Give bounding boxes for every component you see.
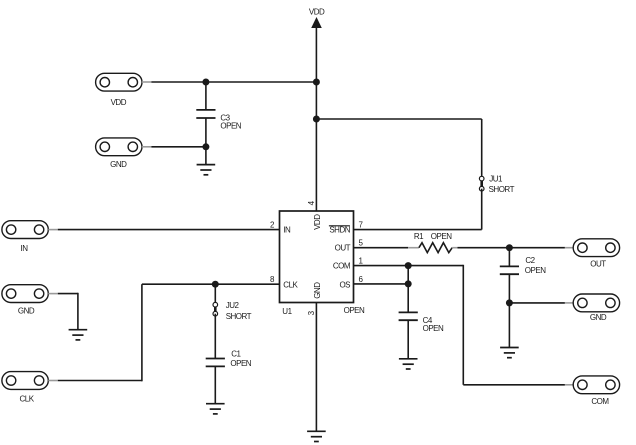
svg-text:OPEN: OPEN <box>230 359 251 368</box>
ground under left GND pad <box>69 330 88 340</box>
svg-text:COM: COM <box>591 397 609 406</box>
wire C4 bottom to ground <box>407 320 409 359</box>
svg-text:GND: GND <box>18 307 35 316</box>
svg-text:2: 2 <box>270 221 275 230</box>
pin 7 number <box>359 221 364 230</box>
svg-text:SHDN: SHDN <box>329 226 350 235</box>
wire C3 bottom to ground <box>205 118 207 165</box>
svg-text:OPEN: OPEN <box>344 306 365 315</box>
label GND (top-left pad) <box>110 160 127 169</box>
label R1 <box>414 232 424 241</box>
wire CLK pad to U1 pin 8 <box>58 284 280 381</box>
svg-text:IN: IN <box>283 226 291 235</box>
pin label SHDN (with overline) <box>329 226 351 235</box>
jumper JU1 <box>479 176 484 191</box>
junction GND pad net at C2 bottom <box>506 299 513 306</box>
wire SHDN pin 7 to JU1 <box>354 229 482 231</box>
label C4 <box>423 316 433 325</box>
wire VDD pad stub (gray) <box>142 81 152 83</box>
connector pad IN <box>2 221 48 239</box>
label JU1 value SHORT <box>489 185 515 194</box>
wire VDD rail to JU1 (horizontal) <box>316 118 481 120</box>
label GND (right pad) <box>590 313 607 322</box>
pin 5 number <box>359 239 364 248</box>
label C1 <box>231 349 241 358</box>
svg-text:IN: IN <box>21 244 29 253</box>
label U1 <box>282 307 292 316</box>
connector pad GND (left) <box>2 285 48 303</box>
wire VDD pad to VDD rail <box>151 81 316 83</box>
pin 4 number (rotated) <box>307 200 316 205</box>
svg-text:OPEN: OPEN <box>423 324 444 333</box>
junction OS net at C4 branch <box>405 280 412 287</box>
svg-text:OUT: OUT <box>590 259 606 268</box>
svg-text:1: 1 <box>359 257 364 266</box>
junction at C3 bottom / GND pad wire <box>202 143 209 150</box>
wire GND left pad to ground <box>58 293 78 330</box>
svg-text:OUT: OUT <box>335 244 351 253</box>
wire IN pad to U1 pin 2 <box>58 229 280 231</box>
svg-text:GND: GND <box>110 160 127 169</box>
wire GND right pad to C2 net <box>509 302 565 304</box>
power symbol VDD (supply arrow) <box>309 7 325 28</box>
wire COM pad stub (gray) <box>565 384 574 386</box>
svg-text:6: 6 <box>359 275 364 284</box>
label CLK (pad) <box>19 395 34 404</box>
wire JU2 to C1 <box>214 314 216 359</box>
label C4 value OPEN <box>423 324 444 333</box>
label JU2 <box>226 301 240 310</box>
svg-text:JU2: JU2 <box>226 301 240 310</box>
svg-text:SHORT: SHORT <box>226 312 252 321</box>
wire JU1 lower segment to SHDN net <box>481 189 483 230</box>
svg-text:OPEN: OPEN <box>525 266 546 275</box>
wire CLK pad stub (gray) <box>48 380 58 382</box>
svg-text:C1: C1 <box>231 349 241 358</box>
connector pad VDD <box>96 73 142 91</box>
pin label CLK <box>283 280 298 289</box>
pin label VDD (rotated) <box>313 214 322 230</box>
wire C3 top branch <box>205 82 207 110</box>
svg-text:4: 4 <box>307 200 316 205</box>
junction COM net at C4 branch <box>405 262 412 269</box>
svg-text:7: 7 <box>359 221 364 230</box>
wire JU1 upper segment <box>481 119 483 179</box>
wire GND left pad stub (gray) <box>48 293 58 295</box>
wire U1 pin 1 COM to bend <box>354 265 464 267</box>
svg-text:3: 3 <box>307 310 316 315</box>
wire OUT pad stub (gray) <box>565 247 574 249</box>
junction CLK net at JU2 <box>212 281 219 288</box>
resistor R1 <box>408 243 457 253</box>
svg-text:VDD: VDD <box>309 7 325 16</box>
svg-text:OS: OS <box>339 280 350 289</box>
capacitor C4 <box>399 312 418 320</box>
label OPEN (OS pin annotation) <box>344 306 365 315</box>
jumper JU2 <box>213 302 218 316</box>
label GND (left pad) <box>18 307 35 316</box>
label OUT (pad) <box>590 259 606 268</box>
wire GND pad stub (gray) <box>142 146 152 148</box>
label R1 value OPEN <box>431 232 452 241</box>
svg-text:JU1: JU1 <box>489 174 503 183</box>
label JU1 <box>489 174 503 183</box>
wire U1 pin 6 OS to C4 branch <box>354 283 409 285</box>
label COM (pad) <box>591 397 609 406</box>
svg-text:R1: R1 <box>414 232 424 241</box>
label VDD (pad) <box>111 98 127 107</box>
svg-text:OPEN: OPEN <box>431 232 452 241</box>
junction at C3 top <box>202 79 209 86</box>
pin label COM <box>333 262 351 271</box>
junction on VDD rail to JU1 <box>313 116 320 123</box>
svg-text:VDD: VDD <box>111 98 127 107</box>
svg-text:OPEN: OPEN <box>220 121 241 130</box>
svg-text:VDD: VDD <box>313 214 322 230</box>
wire CLK net to JU2 <box>214 284 216 305</box>
junction on VDD rail at VDD pad wire <box>313 79 320 86</box>
ground under C3 <box>197 165 216 175</box>
wire C2 bottom to ground <box>508 274 510 347</box>
label C2 value OPEN <box>525 266 546 275</box>
wire IN pad stub (gray) <box>48 229 58 231</box>
op-amp U1 (IC body) <box>280 211 354 303</box>
pin 2 number <box>270 221 275 230</box>
wire GND right pad stub (gray) <box>565 302 574 304</box>
wire C2 top branch <box>508 248 510 267</box>
ground under C4 <box>399 359 418 369</box>
connector pad OUT <box>573 239 619 257</box>
ground under C1 <box>206 404 225 414</box>
svg-text:8: 8 <box>270 275 275 284</box>
label C3 value OPEN <box>220 121 241 130</box>
svg-text:GND: GND <box>313 282 322 299</box>
capacitor C1 <box>206 359 225 367</box>
wire COM net to COM pad <box>463 265 565 385</box>
capacitor C3 <box>196 110 215 118</box>
pin label OUT <box>335 244 351 253</box>
label C1 value OPEN <box>230 359 251 368</box>
connector pad GND (right) <box>573 294 619 312</box>
junction OUT net at C2 <box>506 244 513 251</box>
connector pad GND (top left) <box>96 138 142 156</box>
pin 1 number <box>359 257 364 266</box>
wire U1 pin 5 to R1 <box>354 247 409 249</box>
wire GND pad to C3 bottom node <box>151 146 206 148</box>
label IN (pad) <box>21 244 29 253</box>
label C3 <box>220 113 230 122</box>
label JU2 value SHORT <box>226 312 252 321</box>
pin label OS <box>339 280 350 289</box>
ground under U1 pin 3 <box>307 431 326 441</box>
wire COM/OS branch down to C4 <box>407 266 409 313</box>
svg-text:U1: U1 <box>282 307 292 316</box>
pin 8 number <box>270 275 275 284</box>
svg-text:SHORT: SHORT <box>489 185 515 194</box>
wire R1 to OUT pad <box>458 247 565 249</box>
wire C1 bottom to ground <box>214 366 216 403</box>
svg-text:COM: COM <box>333 262 351 271</box>
pin 6 number <box>359 275 364 284</box>
capacitor C2 <box>500 266 519 274</box>
wire U1 pin 3 GND to ground <box>315 303 317 432</box>
svg-text:C2: C2 <box>525 256 535 265</box>
wire VDD vertical rail to U1 pin 4 <box>315 28 317 212</box>
pin 3 number (rotated) <box>307 310 316 315</box>
label C2 <box>525 256 535 265</box>
ground under C2 <box>500 348 519 358</box>
pin label GND (rotated) <box>313 282 322 299</box>
svg-text:CLK: CLK <box>19 395 34 404</box>
svg-text:GND: GND <box>590 313 607 322</box>
pin label IN <box>283 226 291 235</box>
svg-text:CLK: CLK <box>283 280 298 289</box>
connector pad CLK <box>2 372 48 390</box>
connector pad COM <box>573 376 619 394</box>
svg-text:5: 5 <box>359 239 364 248</box>
